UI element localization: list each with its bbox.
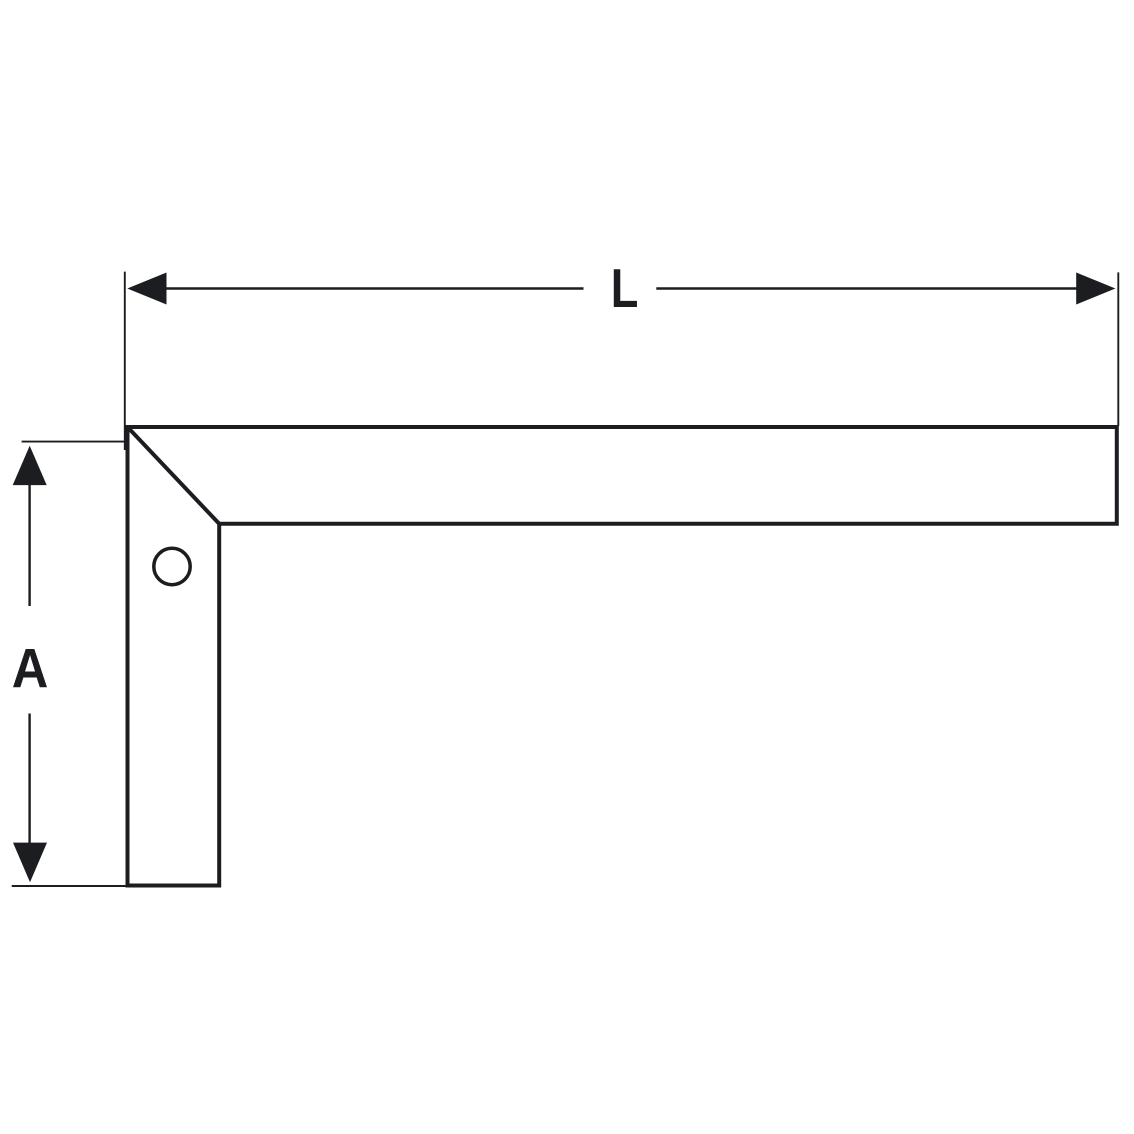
vertical dimension line A: upper segment xyxy=(28,470,30,606)
hanging hole xyxy=(154,548,190,584)
top dimension line L: left segment xyxy=(140,287,584,289)
right extension line (top dim) xyxy=(1117,272,1119,426)
svg-text:A: A xyxy=(12,636,49,699)
bottom extension line (left dim) xyxy=(12,885,128,887)
top extension line (left dim) xyxy=(22,441,128,443)
up arrowhead xyxy=(13,446,47,485)
down arrowhead xyxy=(13,843,47,883)
miter diagonal xyxy=(128,427,220,524)
top dimension line L: right segment xyxy=(656,287,1100,289)
left extension line (top dim) xyxy=(124,272,126,450)
try square body outline xyxy=(128,427,1117,886)
svg-text:L: L xyxy=(611,257,639,319)
vertical dimension line A: lower segment xyxy=(28,714,30,861)
left arrowhead xyxy=(127,273,166,305)
right arrowhead xyxy=(1076,273,1115,305)
